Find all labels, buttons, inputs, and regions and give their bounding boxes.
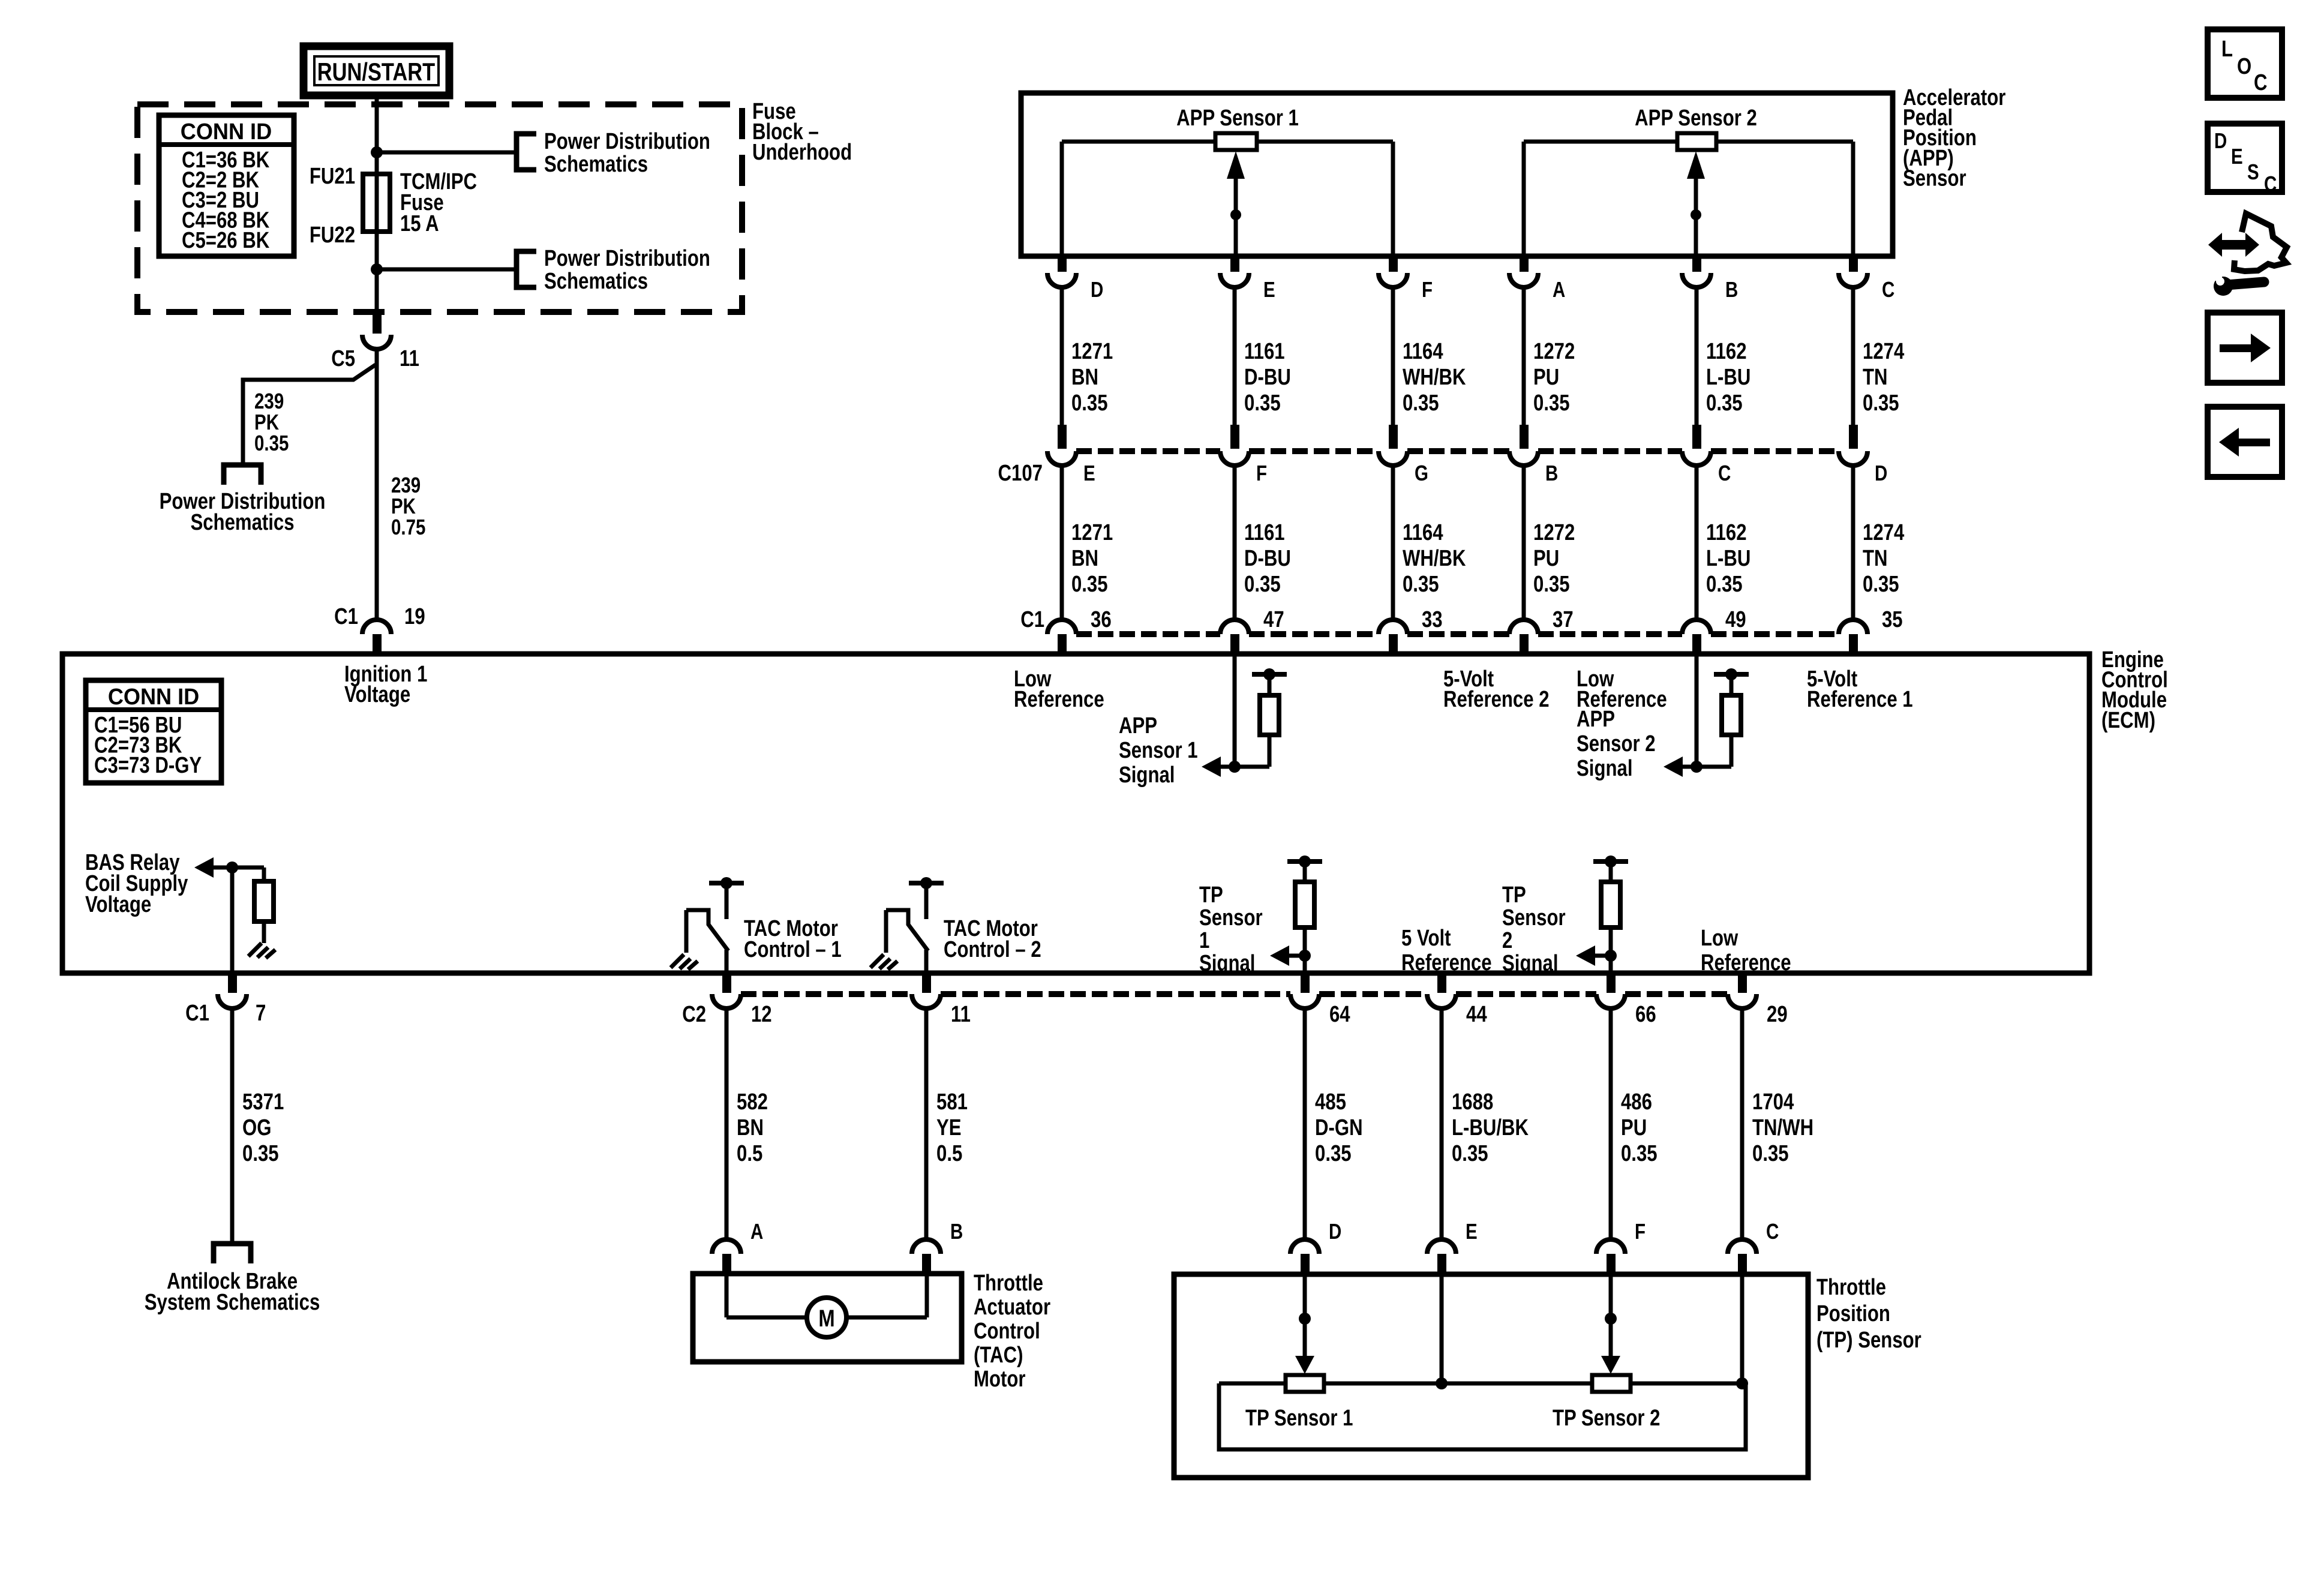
svg-text:Sensor: Sensor — [1502, 905, 1566, 930]
svg-text:581: 581 — [936, 1089, 968, 1115]
svg-text:BN: BN — [1071, 546, 1098, 571]
back navigation arrow icon — [2208, 407, 2282, 477]
svg-text:Control: Control — [974, 1319, 1040, 1344]
svg-text:E: E — [1263, 277, 1275, 301]
svg-text:C: C — [2254, 70, 2268, 95]
svg-text:APP Sensor 1: APP Sensor 1 — [1176, 106, 1299, 131]
svg-text:Sensor: Sensor — [1199, 905, 1263, 930]
ground (TAC driver 2) — [870, 954, 897, 969]
svg-text:Control – 2: Control – 2 — [944, 937, 1041, 962]
wire 239 PK 0.75 down to ECM C1/19 — [375, 348, 379, 621]
motor M symbol — [807, 1298, 846, 1337]
svg-text:PU: PU — [1533, 546, 1559, 571]
svg-text:Position: Position — [1816, 1301, 1890, 1326]
TP sensor 1 wiper wire (pin D) — [1303, 1275, 1307, 1358]
svg-text:BN: BN — [737, 1115, 764, 1140]
wire segment below C107 pin E — [1060, 464, 1064, 621]
svg-text:D: D — [1329, 1219, 1341, 1243]
svg-text:7: 7 — [256, 1001, 266, 1026]
svg-text:0.35: 0.35 — [1071, 391, 1108, 416]
svg-text:D-GN: D-GN — [1315, 1115, 1363, 1140]
svg-text:APP: APP — [1119, 713, 1157, 739]
svg-text:C5: C5 — [331, 346, 355, 371]
svg-text:C: C — [1882, 277, 1894, 301]
svg-text:49: 49 — [1725, 607, 1746, 632]
svg-text:L-BU: L-BU — [1706, 365, 1750, 390]
junction node below fuse — [371, 263, 383, 275]
svg-text:Reference 1: Reference 1 — [1807, 687, 1913, 712]
svg-text:B: B — [1725, 277, 1738, 301]
svg-text:0.5: 0.5 — [936, 1141, 962, 1166]
svg-text:0.5: 0.5 — [737, 1141, 762, 1166]
svg-text:47: 47 — [1263, 607, 1284, 632]
component connector pin E — [1427, 1239, 1456, 1254]
svg-text:66: 66 — [1635, 1002, 1656, 1027]
svg-text:Underhood: Underhood — [752, 140, 852, 165]
svg-text:C5=26 BK: C5=26 BK — [182, 228, 269, 253]
svg-text:PU: PU — [1621, 1115, 1647, 1140]
svg-text:36: 36 — [1091, 607, 1112, 632]
svg-text:486: 486 — [1621, 1089, 1652, 1115]
svg-text:FU22: FU22 — [310, 223, 355, 248]
svg-text:0.35: 0.35 — [254, 431, 289, 455]
svg-text:System Schematics: System Schematics — [145, 1290, 320, 1315]
svg-text:F: F — [1422, 277, 1433, 301]
svg-text:G: G — [1415, 461, 1428, 485]
svg-text:1162: 1162 — [1706, 520, 1747, 545]
svg-text:0.35: 0.35 — [1071, 572, 1108, 597]
svg-text:1688: 1688 — [1452, 1089, 1493, 1115]
svg-text:37: 37 — [1553, 607, 1574, 632]
svg-text:1161: 1161 — [1244, 520, 1285, 545]
wire 1162 L-BU segment above C107 — [1695, 286, 1699, 426]
APP box connector pin D — [1058, 256, 1067, 272]
APP sensor 2 wiper arrow — [1687, 151, 1705, 179]
svg-text:1271: 1271 — [1071, 339, 1113, 364]
branch diagonal to 239 PK 0.35 — [243, 365, 376, 464]
svg-text:C: C — [2264, 172, 2277, 196]
svg-text:L-BU/BK: L-BU/BK — [1452, 1115, 1529, 1140]
Throttle Position sensor box — [1174, 1274, 1808, 1478]
svg-text:Reference 2: Reference 2 — [1443, 687, 1550, 712]
svg-text:1274: 1274 — [1863, 339, 1905, 364]
svg-text:1704: 1704 — [1752, 1089, 1794, 1115]
svg-text:0.35: 0.35 — [1533, 572, 1570, 597]
ground (BAS pull-up resistor) — [248, 943, 275, 958]
off-page pointer lower power distribution — [517, 251, 536, 287]
svg-text:0.75: 0.75 — [391, 515, 425, 539]
wire 1274 TN segment above C107 — [1851, 286, 1855, 426]
TAC Motor Control - 2 driver (pin 11) — [909, 881, 944, 885]
svg-text:TN: TN — [1863, 365, 1888, 390]
svg-text:L: L — [2221, 37, 2233, 62]
component connector pin B — [912, 1239, 941, 1254]
fuse block dashed box — [137, 104, 742, 312]
svg-text:C: C — [1766, 1219, 1779, 1243]
CONN ID table (ECM) — [86, 680, 221, 783]
svg-text:TN/WH: TN/WH — [1752, 1115, 1813, 1140]
wire branch to lower power distribution — [377, 268, 517, 272]
svg-text:0.35: 0.35 — [1533, 391, 1570, 416]
svg-text:CONN ID: CONN ID — [181, 118, 272, 144]
wire 5371 OG 0.35 — [230, 1007, 235, 1244]
svg-text:M: M — [818, 1305, 834, 1332]
forward navigation arrow icon — [2208, 313, 2282, 383]
RUN/START ignition voltage source box — [304, 46, 449, 95]
ground (TAC driver 1) — [671, 954, 698, 969]
svg-text:11: 11 — [951, 1002, 971, 1027]
APP sensor 1 potentiometer track wire — [1062, 140, 1215, 144]
svg-text:D: D — [1091, 277, 1103, 301]
svg-text:TP: TP — [1502, 882, 1526, 908]
wire from RUN/START down through fuse block — [375, 95, 379, 316]
svg-text:RUN/START: RUN/START — [317, 58, 436, 86]
APP sensor 2 potentiometer track wire — [1524, 140, 1677, 144]
svg-text:C: C — [1718, 461, 1731, 485]
svg-text:Power Distribution: Power Distribution — [544, 129, 710, 154]
APP box connector pin C — [1849, 256, 1858, 272]
svg-text:A: A — [1553, 277, 1565, 301]
svg-text:64: 64 — [1329, 1002, 1350, 1027]
svg-text:WH/BK: WH/BK — [1403, 365, 1466, 390]
svg-text:29: 29 — [1767, 1002, 1788, 1027]
svg-text:Power Distribution: Power Distribution — [544, 246, 710, 271]
svg-text:A: A — [750, 1219, 763, 1243]
svg-text:Reference: Reference — [1701, 950, 1791, 975]
svg-text:Voltage: Voltage — [85, 892, 151, 917]
svg-text:0.35: 0.35 — [1752, 1141, 1789, 1166]
svg-text:C1: C1 — [185, 1001, 209, 1026]
svg-text:1164: 1164 — [1403, 339, 1443, 364]
wire segment below C107 pin G — [1391, 464, 1395, 621]
svg-text:1164: 1164 — [1403, 520, 1443, 545]
svg-text:PU: PU — [1533, 365, 1559, 390]
junction node above fuse — [371, 146, 383, 158]
svg-text:TP Sensor 2: TP Sensor 2 — [1553, 1406, 1660, 1431]
component connector pin F — [1596, 1239, 1625, 1254]
APP sensor 2 resistor element — [1677, 133, 1716, 150]
wire 1704 TN/WH 0.35 — [1740, 1007, 1744, 1241]
svg-text:D: D — [2214, 128, 2227, 152]
APP box connector pin B — [1692, 256, 1701, 272]
connector C1/19 into ECM (Ignition 1 Voltage) — [362, 620, 391, 634]
svg-text:C1: C1 — [1020, 607, 1044, 632]
svg-text:35: 35 — [1882, 607, 1903, 632]
TP Sensor 2 resistor element — [1592, 1375, 1631, 1392]
svg-text:0.35: 0.35 — [1706, 572, 1743, 597]
svg-text:FU21: FU21 — [310, 164, 355, 189]
svg-text:33: 33 — [1422, 607, 1443, 632]
C107 connector row (pins and arcs on dashed line) — [1058, 425, 1067, 449]
fuse FU21/FU22 TCM/IPC 15A — [363, 174, 390, 232]
wire segment below C107 pin B — [1522, 464, 1526, 621]
component connector pin D — [1290, 1239, 1319, 1254]
svg-text:APP Sensor 2: APP Sensor 2 — [1635, 106, 1757, 131]
APP Sensor 2 Signal internal circuit (pin 49) — [1695, 654, 1699, 767]
svg-text:D: D — [1875, 461, 1887, 485]
svg-text:1272: 1272 — [1533, 520, 1575, 545]
svg-text:Signal: Signal — [1119, 763, 1175, 788]
svg-text:TP: TP — [1199, 882, 1223, 908]
svg-text:0.35: 0.35 — [1403, 572, 1439, 597]
svg-text:Signal: Signal — [1199, 951, 1255, 976]
TAC motor internal wiring — [725, 1274, 729, 1317]
wire 1271 BN segment above C107 — [1060, 286, 1064, 426]
svg-text:Motor: Motor — [974, 1367, 1025, 1392]
svg-text:1161: 1161 — [1244, 339, 1285, 364]
svg-text:1271: 1271 — [1071, 520, 1113, 545]
svg-text:E: E — [1083, 461, 1095, 485]
TP sensor low ref wire (pin C) — [1740, 1275, 1744, 1383]
svg-text:CONN ID: CONN ID — [108, 683, 199, 709]
svg-text:Reference: Reference — [1014, 687, 1104, 712]
TP sensor 5V feed wire (pin E) — [1440, 1275, 1444, 1383]
svg-text:C1: C1 — [334, 604, 358, 629]
svg-text:WH/BK: WH/BK — [1403, 546, 1466, 571]
APP Sensor 1 Signal internal circuit (pin 47) — [1233, 654, 1237, 767]
svg-text:1162: 1162 — [1706, 339, 1747, 364]
svg-text:Reference: Reference — [1401, 950, 1492, 975]
component connector pin A — [712, 1239, 741, 1254]
svg-text:0.35: 0.35 — [242, 1141, 279, 1166]
svg-text:Low: Low — [1701, 926, 1739, 951]
ECM C2 connector row (pins and arcs on dashed line) — [722, 975, 731, 993]
wire 581 YE 0.5 — [924, 1007, 929, 1241]
svg-text:Control – 1: Control – 1 — [744, 937, 842, 962]
svg-text:0.35: 0.35 — [1706, 391, 1743, 416]
svg-text:B: B — [1545, 461, 1558, 485]
svg-text:BN: BN — [1071, 365, 1098, 390]
Accelerator Pedal Position sensor box — [1021, 93, 1893, 256]
wire 582 BN 0.5 — [725, 1007, 729, 1241]
wire branch to upper power distribution — [377, 151, 517, 155]
wire 485 D-GN 0.35 — [1303, 1007, 1307, 1241]
wire 1688 L-BU/BK 0.35 — [1440, 1007, 1444, 1241]
svg-text:0.35: 0.35 — [1403, 391, 1439, 416]
ECM C1 connector row (pins and arcs on dashed line) — [1047, 620, 1076, 634]
svg-text:0.35: 0.35 — [1863, 572, 1899, 597]
APP box connector pin E — [1230, 256, 1239, 272]
svg-text:1274: 1274 — [1863, 520, 1905, 545]
svg-text:485: 485 — [1315, 1089, 1346, 1115]
svg-text:Sensor 1: Sensor 1 — [1119, 738, 1198, 763]
svg-text:O: O — [2237, 54, 2251, 79]
svg-text:15 A: 15 A — [400, 211, 439, 236]
svg-text:44: 44 — [1466, 1002, 1487, 1027]
svg-text:1: 1 — [1199, 928, 1209, 953]
svg-text:Sensor: Sensor — [1903, 166, 1966, 191]
vehicle panel navigation icon — [2208, 233, 2259, 257]
svg-text:0.35: 0.35 — [1244, 391, 1281, 416]
svg-text:YE: YE — [936, 1115, 962, 1140]
wire segment below C107 pin F — [1233, 464, 1237, 621]
svg-text:0.35: 0.35 — [1244, 572, 1281, 597]
svg-text:0.35: 0.35 — [1621, 1141, 1658, 1166]
svg-text:582: 582 — [737, 1089, 768, 1115]
svg-text:B: B — [950, 1219, 963, 1243]
svg-text:(ECM): (ECM) — [2101, 708, 2155, 733]
TP Sensor 1 Signal internal circuit (pin 64) — [1287, 859, 1322, 864]
TP sensor inner track box — [1219, 1383, 1746, 1449]
svg-text:Sensor 2: Sensor 2 — [1577, 731, 1656, 757]
DESC navigation icon box — [2208, 124, 2282, 192]
APP box connector pin F — [1389, 256, 1398, 272]
connector C1/7 below ECM (BAS relay wire) — [228, 975, 237, 993]
Engine Control Module (ECM) box — [62, 654, 2089, 973]
svg-text:E: E — [1466, 1219, 1478, 1243]
APP sensor 1 wiper arrow — [1227, 151, 1245, 179]
svg-text:11: 11 — [400, 346, 419, 371]
svg-text:Signal: Signal — [1577, 756, 1632, 781]
off-page pointer to antilock brake schematics — [214, 1244, 251, 1263]
wire 1272 PU segment above C107 — [1522, 286, 1526, 426]
wire segment below C107 pin C — [1695, 464, 1699, 621]
svg-text:12: 12 — [751, 1002, 772, 1027]
TP sensor 2 wiper wire (pin F) — [1609, 1275, 1613, 1358]
svg-text:Throttle: Throttle — [1816, 1275, 1886, 1300]
svg-text:5371: 5371 — [242, 1089, 284, 1115]
svg-text:TN: TN — [1863, 546, 1888, 571]
svg-text:APP: APP — [1577, 707, 1615, 732]
svg-text:Actuator: Actuator — [974, 1295, 1050, 1320]
LOC navigation icon box — [2208, 29, 2282, 98]
svg-text:(TP) Sensor: (TP) Sensor — [1816, 1328, 1921, 1353]
svg-text:D-BU: D-BU — [1244, 365, 1291, 390]
TAC Motor Control - 1 driver (pin 12) — [709, 881, 744, 885]
svg-text:19: 19 — [404, 604, 425, 629]
BAS Relay Coil Supply Voltage circuit — [230, 867, 235, 973]
svg-text:F: F — [1256, 461, 1267, 485]
svg-text:TP Sensor 1: TP Sensor 1 — [1245, 1406, 1353, 1431]
svg-text:C107: C107 — [998, 461, 1043, 486]
svg-text:Schematics: Schematics — [544, 269, 648, 294]
svg-text:(TAC): (TAC) — [974, 1343, 1023, 1368]
svg-text:0.35: 0.35 — [1863, 391, 1899, 416]
wire 486 PU 0.35 — [1609, 1007, 1613, 1241]
svg-text:S: S — [2247, 160, 2259, 184]
svg-text:C2: C2 — [682, 1002, 706, 1027]
CONN ID table (fuse block) — [159, 115, 294, 256]
svg-text:0.35: 0.35 — [1452, 1141, 1488, 1166]
off-page pointer upper power distribution — [517, 134, 536, 170]
svg-text:Signal: Signal — [1502, 951, 1558, 976]
wire 1161 D-BU segment above C107 — [1233, 286, 1237, 426]
svg-text:C3=73 D-GY: C3=73 D-GY — [94, 753, 202, 778]
svg-text:Schematics: Schematics — [544, 152, 648, 177]
svg-text:Throttle: Throttle — [974, 1271, 1043, 1296]
wire 1164 WH/BK segment above C107 — [1391, 286, 1395, 426]
svg-text:2: 2 — [1502, 928, 1512, 953]
TP Sensor 1 resistor element — [1286, 1375, 1324, 1392]
wire segment below C107 pin D — [1851, 464, 1855, 621]
connector C5 pin 11 — [373, 312, 382, 334]
APP box connector pin A — [1520, 256, 1529, 272]
svg-text:1272: 1272 — [1533, 339, 1575, 364]
svg-text:E: E — [2231, 144, 2243, 168]
svg-text:L-BU: L-BU — [1706, 546, 1750, 571]
off-page pointer to power distribution (left) — [224, 465, 261, 485]
svg-text:5 Volt: 5 Volt — [1401, 926, 1451, 951]
APP sensor 1 resistor element — [1215, 133, 1257, 150]
Throttle Actuator Control motor box — [693, 1274, 962, 1362]
svg-text:0.35: 0.35 — [1315, 1141, 1352, 1166]
TP Sensor 2 Signal internal circuit (pin 66) — [1593, 859, 1628, 864]
component connector pin C — [1728, 1239, 1756, 1254]
svg-text:OG: OG — [242, 1115, 271, 1140]
svg-text:Schematics: Schematics — [190, 510, 294, 535]
svg-text:F: F — [1635, 1219, 1646, 1243]
svg-text:Voltage: Voltage — [344, 682, 410, 707]
svg-text:D-BU: D-BU — [1244, 546, 1291, 571]
